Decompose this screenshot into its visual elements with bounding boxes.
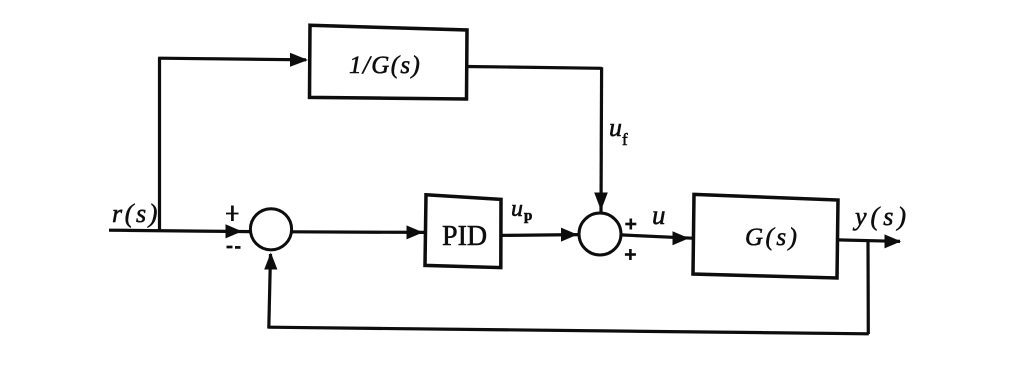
svg-text:f: f — [622, 130, 628, 149]
svg-text:u: u — [609, 113, 622, 142]
plus sign at summer1 input — [231, 206, 234, 222]
wire: summer1 to PID — [292, 230, 424, 234]
wire: r(s) input line to summer 1 — [109, 230, 251, 231]
svg-text:p: p — [524, 208, 532, 224]
svg-text:y(s): y(s) — [852, 202, 910, 231]
wire: G(s) output y(s) — [838, 240, 901, 242]
block 1/G(s) — [310, 25, 468, 99]
summing junction 1 — [250, 209, 291, 250]
svg-text:PID: PID — [442, 221, 487, 252]
wire: PID to summer 2 — [501, 233, 579, 237]
wire: branch vertical up from input — [158, 58, 161, 232]
arrowhead into G(s) — [673, 231, 690, 245]
arrowhead into summer 1 (from r) — [226, 224, 243, 238]
wire: top horizontal to 1/G(s) block — [158, 58, 306, 60]
wire: feedback bottom line — [269, 327, 869, 334]
svg-text:1/G(s): 1/G(s) — [349, 52, 421, 79]
svg-text:r(s): r(s) — [112, 199, 160, 228]
arrowhead into summer 2 (from top, uf) — [594, 193, 608, 211]
arrowhead into 1/G(s) — [290, 53, 308, 67]
svg-text:u: u — [652, 200, 666, 230]
block G(s) — [693, 194, 838, 278]
arrowhead into PID — [407, 225, 424, 239]
block PID — [425, 195, 501, 268]
wire: vertical drop to summer 2 — [599, 67, 603, 213]
svg-text:G(s): G(s) — [745, 224, 799, 251]
arrowhead into summer 1 (feedback, up) — [264, 253, 277, 270]
wire: summer2 to G(s) — [621, 235, 692, 238]
wire: feedback vertical right — [866, 241, 869, 334]
arrowhead output y(s) — [885, 234, 902, 248]
plus sign lower at summer2 — [629, 249, 632, 260]
wire: feedback vertical left up to summer 1 — [269, 254, 271, 329]
minus sign at summer1 feedback — [227, 246, 233, 249]
plus sign upper at summer2 — [629, 219, 632, 230]
arrowhead into summer 2 (from PID) — [561, 228, 578, 242]
wire: 1/G(s) output to corner — [467, 67, 602, 69]
svg-text:u: u — [511, 196, 523, 222]
summing junction 2 — [579, 213, 621, 255]
